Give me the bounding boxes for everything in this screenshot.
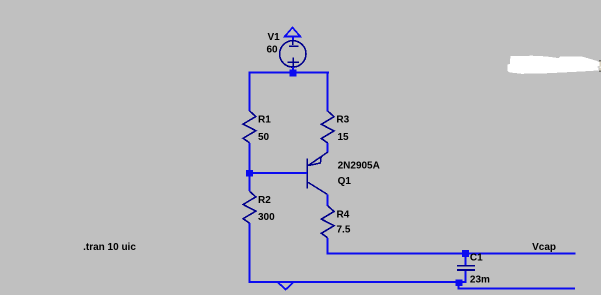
wire Vcap net	[327, 252, 576, 254]
right edge artifact	[599, 60, 601, 72]
junction C1 bottom	[455, 279, 462, 286]
transistor Q1 base bar	[306, 159, 308, 189]
wire jog down	[457, 286, 459, 290]
junction C1 top	[462, 250, 469, 257]
svg-text:R3: R3	[336, 115, 349, 126]
transistor Q1 collector	[308, 182, 328, 194]
wire collector to R4	[327, 195, 329, 206]
svg-text:C1: C1	[470, 252, 483, 263]
wire left branch upper	[249, 71, 251, 111]
wire base	[249, 172, 308, 174]
white redaction blob	[507, 56, 599, 74]
svg-text:Q1: Q1	[338, 176, 352, 187]
transistor Q1 emitter	[308, 152, 328, 166]
wire R2 top stub	[249, 174, 251, 191]
svg-text:.tran 10 uic: .tran 10 uic	[83, 242, 136, 253]
ground flag above V1 (flipped)	[285, 28, 300, 42]
wire lower right bus	[457, 288, 575, 290]
svg-text:R4: R4	[337, 210, 350, 221]
svg-text:R1: R1	[258, 115, 271, 126]
junction base node	[246, 170, 253, 177]
wire R4 bottom stub	[327, 238, 329, 255]
resistor R2	[243, 191, 256, 223]
wire C1 bottom lead	[465, 271, 467, 282]
wire R2 bottom to ground bus	[249, 223, 251, 283]
wire C1 top lead	[464, 254, 466, 265]
svg-text:7.5: 7.5	[337, 224, 351, 235]
resistor R3	[321, 111, 334, 143]
wire right branch upper	[327, 71, 329, 111]
svg-text:300: 300	[258, 212, 275, 223]
voltage source V1	[280, 41, 306, 67]
wire V1 to bus	[292, 67, 294, 72]
wire top bus	[249, 71, 330, 73]
svg-text:V1: V1	[268, 32, 281, 43]
svg-text:2N2905A: 2N2905A	[338, 160, 380, 171]
svg-text:R2: R2	[258, 195, 271, 206]
ground symbol	[278, 282, 294, 290]
svg-text:15: 15	[338, 132, 350, 143]
svg-text:50: 50	[258, 132, 270, 143]
junction below V1	[289, 70, 296, 77]
resistor R1	[243, 111, 256, 143]
wire ground bus	[249, 281, 467, 283]
wire R1 bottom to base node	[249, 143, 251, 173]
wire R3 bottom to emitter	[327, 143, 329, 153]
svg-text:60: 60	[267, 45, 279, 56]
resistor R4	[321, 206, 334, 238]
svg-text:23m: 23m	[470, 275, 490, 286]
svg-text:Vcap: Vcap	[532, 242, 556, 253]
capacitor C1	[457, 265, 475, 271]
